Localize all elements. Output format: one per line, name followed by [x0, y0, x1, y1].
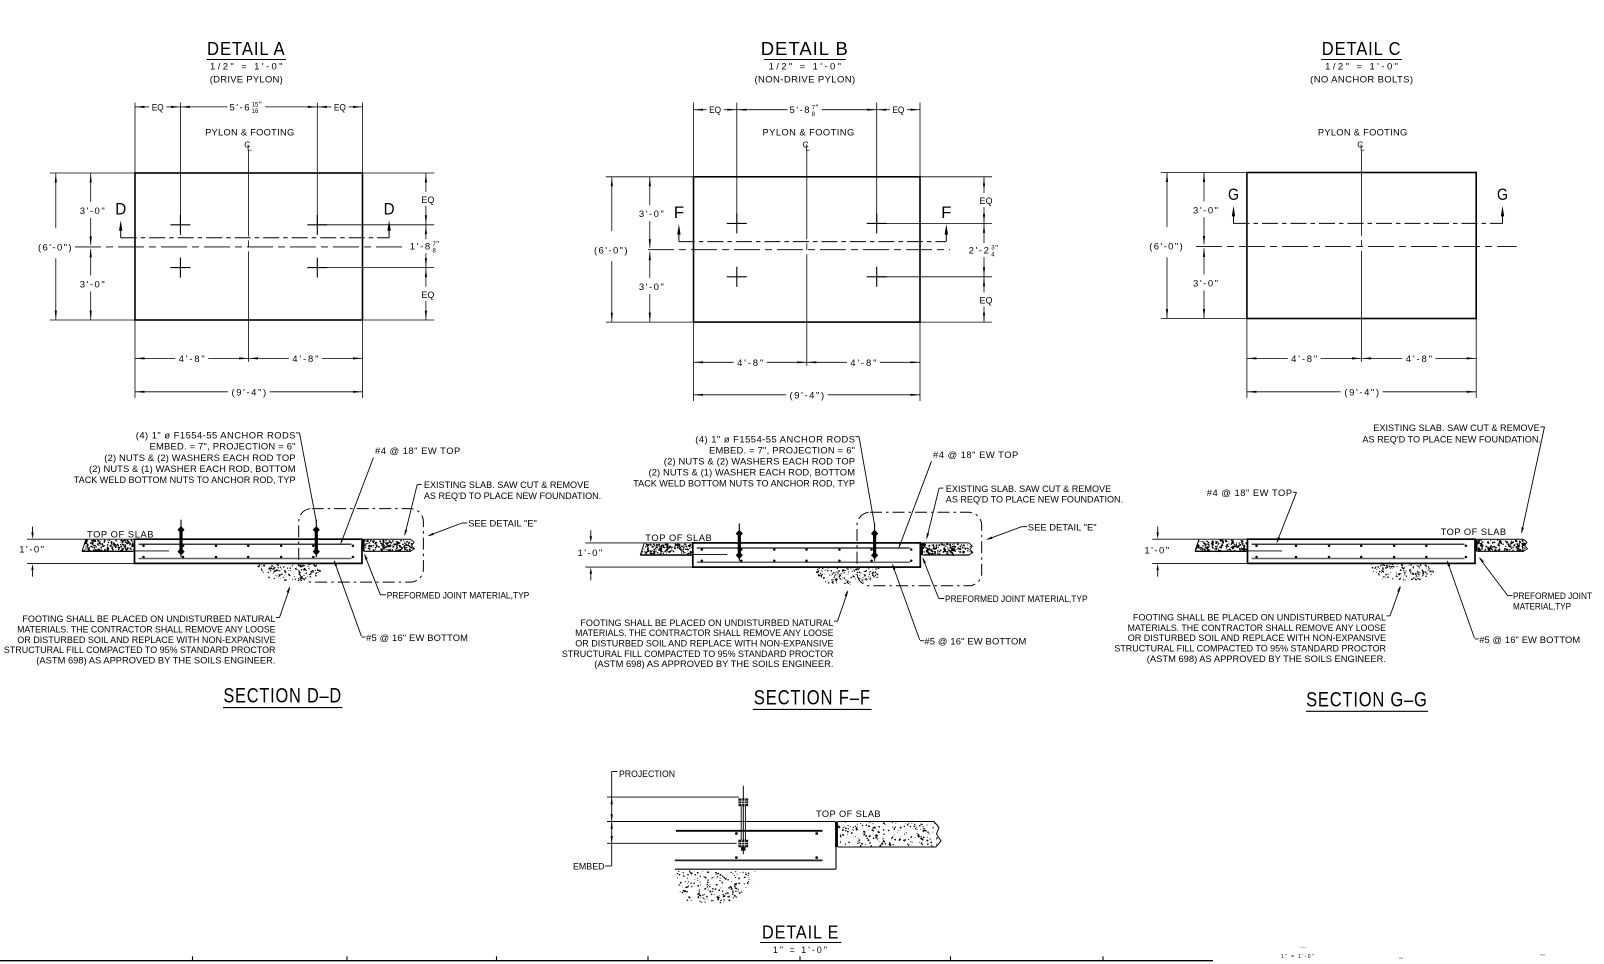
svg-text:SECTION F–F: SECTION F–F — [754, 686, 871, 709]
svg-text:(9'-4"): (9'-4") — [1344, 387, 1380, 398]
svg-text:2'-2: 2'-2 — [969, 246, 991, 257]
svg-text:#5 @ 16" EW BOTTOM: #5 @ 16" EW BOTTOM — [366, 632, 468, 643]
svg-text:TACK WELD BOTTOM NUTS TO ANCHO: TACK WELD BOTTOM NUTS TO ANCHOR ROD, TYP — [74, 474, 296, 485]
svg-text:(ASTM 698) AS APPROVED BY THE: (ASTM 698) AS APPROVED BY THE SOILS ENGI… — [594, 658, 833, 669]
svg-text:AS REQ'D TO PLACE NEW FOUNDATI: AS REQ'D TO PLACE NEW FOUNDATION. — [424, 490, 601, 501]
svg-text:3'-0": 3'-0" — [80, 206, 107, 217]
svg-text:(2) NUTS & (1) WASHER EACH ROD: (2) NUTS & (1) WASHER EACH ROD, BOTTOM — [89, 463, 296, 474]
svg-text:OR DISTURBED SOIL AND REPLACE: OR DISTURBED SOIL AND REPLACE WITH NON-E… — [575, 638, 833, 649]
svg-text:3'-0": 3'-0" — [639, 209, 666, 220]
svg-text:SECTION D–D: SECTION D–D — [223, 685, 342, 708]
svg-text:L: L — [805, 143, 810, 153]
svg-text:TACK WELD BOTTOM NUTS TO ANCHO: TACK WELD BOTTOM NUTS TO ANCHOR ROD, TYP — [633, 478, 855, 489]
svg-text:": " — [816, 104, 819, 113]
svg-text:1/2" = 1'-0": 1/2" = 1'-0" — [1325, 62, 1400, 73]
svg-text:PYLON & FOOTING: PYLON & FOOTING — [205, 127, 294, 137]
svg-text:1'-0": 1'-0" — [578, 548, 604, 559]
svg-text:EMBED. = 7", PROJECTION = 6": EMBED. = 7", PROJECTION = 6" — [709, 444, 855, 455]
svg-text:": " — [436, 240, 439, 249]
svg-text:D: D — [115, 199, 126, 218]
svg-text:(2) NUTS & (2) WASHERS EACH RO: (2) NUTS & (2) WASHERS EACH ROD TOP — [104, 452, 295, 463]
svg-text:4'-8": 4'-8" — [1291, 354, 1319, 365]
svg-text:AS REQ'D TO PLACE NEW FOUNDATI: AS REQ'D TO PLACE NEW FOUNDATION. — [946, 494, 1123, 505]
svg-text:1" = 1'-0": 1" = 1'-0" — [773, 945, 829, 955]
svg-text:(6'-0"): (6'-0") — [1149, 242, 1184, 253]
svg-text:(2) NUTS & (1) WASHER EACH ROD: (2) NUTS & (1) WASHER EACH ROD, BOTTOM — [649, 467, 856, 478]
svg-text:EQ: EQ — [334, 102, 346, 112]
svg-text:1'-8: 1'-8 — [410, 242, 432, 253]
svg-text:L: L — [247, 143, 252, 153]
svg-text:3'-0": 3'-0" — [1193, 278, 1220, 289]
svg-text:3'-0": 3'-0" — [1193, 205, 1220, 216]
svg-text:4'-8": 4'-8" — [179, 354, 207, 365]
svg-text:G: G — [1228, 185, 1239, 204]
svg-text:DETAIL E: DETAIL E — [762, 921, 839, 942]
svg-text:": " — [995, 244, 998, 253]
svg-text:EQ: EQ — [980, 196, 993, 206]
svg-text:1/2" = 1'-0": 1/2" = 1'-0" — [769, 62, 844, 73]
svg-text:EQ: EQ — [152, 102, 164, 112]
svg-text:4'-8": 4'-8" — [737, 358, 765, 369]
svg-text:SEE DETAIL "E": SEE DETAIL "E" — [1028, 521, 1097, 532]
svg-text:SECTION G–G: SECTION G–G — [1306, 688, 1428, 711]
svg-text:TOP OF SLAB: TOP OF SLAB — [645, 533, 712, 543]
svg-text:#4 @ 18" EW TOP: #4 @ 18" EW TOP — [375, 445, 461, 456]
svg-text:D: D — [384, 199, 395, 218]
svg-text:(ASTM 698) AS APPROVED BY THE: (ASTM 698) AS APPROVED BY THE SOILS ENGI… — [36, 655, 275, 666]
svg-text:(DRIVE PYLON): (DRIVE PYLON) — [210, 75, 283, 86]
svg-text:PREFORMED JOINT MATERIAL,TYP: PREFORMED JOINT MATERIAL,TYP — [945, 593, 1088, 604]
svg-text:DETAIL B: DETAIL B — [761, 38, 849, 59]
svg-text:(NON-DRIVE PYLON): (NON-DRIVE PYLON) — [754, 75, 855, 86]
svg-text:5'-6: 5'-6 — [230, 102, 252, 113]
svg-text:F: F — [941, 203, 951, 222]
svg-text:(9'-4"): (9'-4") — [232, 387, 268, 398]
svg-text:DETAIL A: DETAIL A — [207, 38, 286, 59]
svg-text:1/2" = 1'-0": 1/2" = 1'-0" — [210, 62, 285, 73]
svg-text:#4 @ 18" EW TOP: #4 @ 18" EW TOP — [1207, 487, 1293, 498]
svg-text:4'-8": 4'-8" — [850, 358, 878, 369]
svg-text:(2) NUTS & (2) WASHERS EACH RO: (2) NUTS & (2) WASHERS EACH ROD TOP — [664, 456, 855, 467]
svg-text:FOOTING SHALL BE PLACED ON UND: FOOTING SHALL BE PLACED ON UNDISTURBED N… — [1133, 612, 1386, 623]
svg-text:L: L — [1360, 143, 1365, 153]
svg-text:#4 @ 18" EW TOP: #4 @ 18" EW TOP — [933, 449, 1019, 460]
svg-text:TOP OF SLAB: TOP OF SLAB — [87, 529, 154, 539]
svg-text:G: G — [1497, 185, 1508, 204]
svg-text:EQ: EQ — [421, 195, 434, 205]
svg-text:EXISTING SLAB. SAW CUT & REMOV: EXISTING SLAB. SAW CUT & REMOVE — [1373, 422, 1539, 433]
svg-text:3'-0": 3'-0" — [80, 279, 107, 290]
svg-text:OR DISTURBED SOIL AND REPLACE: OR DISTURBED SOIL AND REPLACE WITH NON-E… — [1128, 632, 1386, 643]
svg-text:EMBED. = 7", PROJECTION = 6": EMBED. = 7", PROJECTION = 6" — [150, 441, 296, 452]
svg-text:F: F — [674, 203, 684, 222]
svg-text:(4) 1" ø F1554-55 ANCHOR RODS: (4) 1" ø F1554-55 ANCHOR RODS — [136, 430, 296, 441]
svg-text:(6'-0"): (6'-0") — [594, 246, 629, 257]
svg-text:MATERIAL,TYP: MATERIAL,TYP — [1513, 601, 1571, 612]
svg-text:PYLON & FOOTING: PYLON & FOOTING — [763, 127, 855, 137]
svg-text:PREFORMED JOINT MATERIAL,TYP: PREFORMED JOINT MATERIAL,TYP — [387, 589, 530, 600]
svg-text:EQ: EQ — [892, 105, 904, 115]
svg-text:OR DISTURBED SOIL AND REPLACE: OR DISTURBED SOIL AND REPLACE WITH NON-E… — [17, 634, 275, 645]
svg-text:EQ: EQ — [980, 296, 993, 306]
svg-text:SEE DETAIL "E": SEE DETAIL "E" — [468, 518, 537, 529]
svg-text:PROJECTION: PROJECTION — [619, 768, 675, 779]
svg-text:EMBED: EMBED — [573, 861, 605, 872]
svg-text:EXISTING SLAB. SAW CUT & REMOV: EXISTING SLAB. SAW CUT & REMOVE — [424, 479, 589, 490]
svg-text:#5 @ 16" EW BOTTOM: #5 @ 16" EW BOTTOM — [924, 636, 1026, 647]
svg-text:PYLON & FOOTING: PYLON & FOOTING — [1318, 127, 1408, 137]
svg-text:TOP OF SLAB: TOP OF SLAB — [816, 809, 881, 819]
svg-text:EQ: EQ — [421, 290, 434, 300]
svg-text:FOOTING SHALL BE PLACED ON UND: FOOTING SHALL BE PLACED ON UNDISTURBED N… — [22, 613, 275, 624]
svg-text:16: 16 — [252, 108, 259, 115]
svg-text:(9'-4"): (9'-4") — [790, 390, 826, 401]
svg-text:": " — [259, 101, 262, 110]
svg-text:DETAIL C: DETAIL C — [1322, 38, 1402, 59]
svg-text:#5 @ 16" EW BOTTOM: #5 @ 16" EW BOTTOM — [1479, 634, 1580, 645]
svg-text:3'-0": 3'-0" — [639, 282, 666, 293]
svg-text:AS REQ'D TO PLACE NEW FOUNDATI: AS REQ'D TO PLACE NEW FOUNDATION. — [1362, 434, 1541, 445]
svg-text:(6'-0"): (6'-0") — [38, 243, 73, 254]
svg-text:5'-8: 5'-8 — [790, 105, 812, 116]
svg-text:EXISTING SLAB. SAW CUT & REMOV: EXISTING SLAB. SAW CUT & REMOVE — [946, 483, 1111, 494]
svg-text:4'-8": 4'-8" — [1406, 354, 1434, 365]
svg-text:TOP OF SLAB: TOP OF SLAB — [1441, 527, 1507, 537]
svg-text:(4) 1" ø F1554-55 ANCHOR RODS: (4) 1" ø F1554-55 ANCHOR RODS — [695, 433, 855, 444]
svg-text:(ASTM 698) AS APPROVED BY THE: (ASTM 698) AS APPROVED BY THE SOILS ENGI… — [1147, 653, 1386, 664]
svg-text:1" = 1'-0": 1" = 1'-0" — [1281, 954, 1315, 960]
svg-text:1'-0": 1'-0" — [1144, 546, 1170, 557]
svg-text:EQ: EQ — [709, 105, 721, 115]
svg-text:1'-0": 1'-0" — [19, 544, 45, 555]
svg-text:FOOTING SHALL BE PLACED ON UND: FOOTING SHALL BE PLACED ON UNDISTURBED N… — [580, 617, 833, 628]
svg-text:4'-8": 4'-8" — [292, 354, 320, 365]
svg-text:(NO ANCHOR BOLTS): (NO ANCHOR BOLTS) — [1310, 75, 1413, 86]
